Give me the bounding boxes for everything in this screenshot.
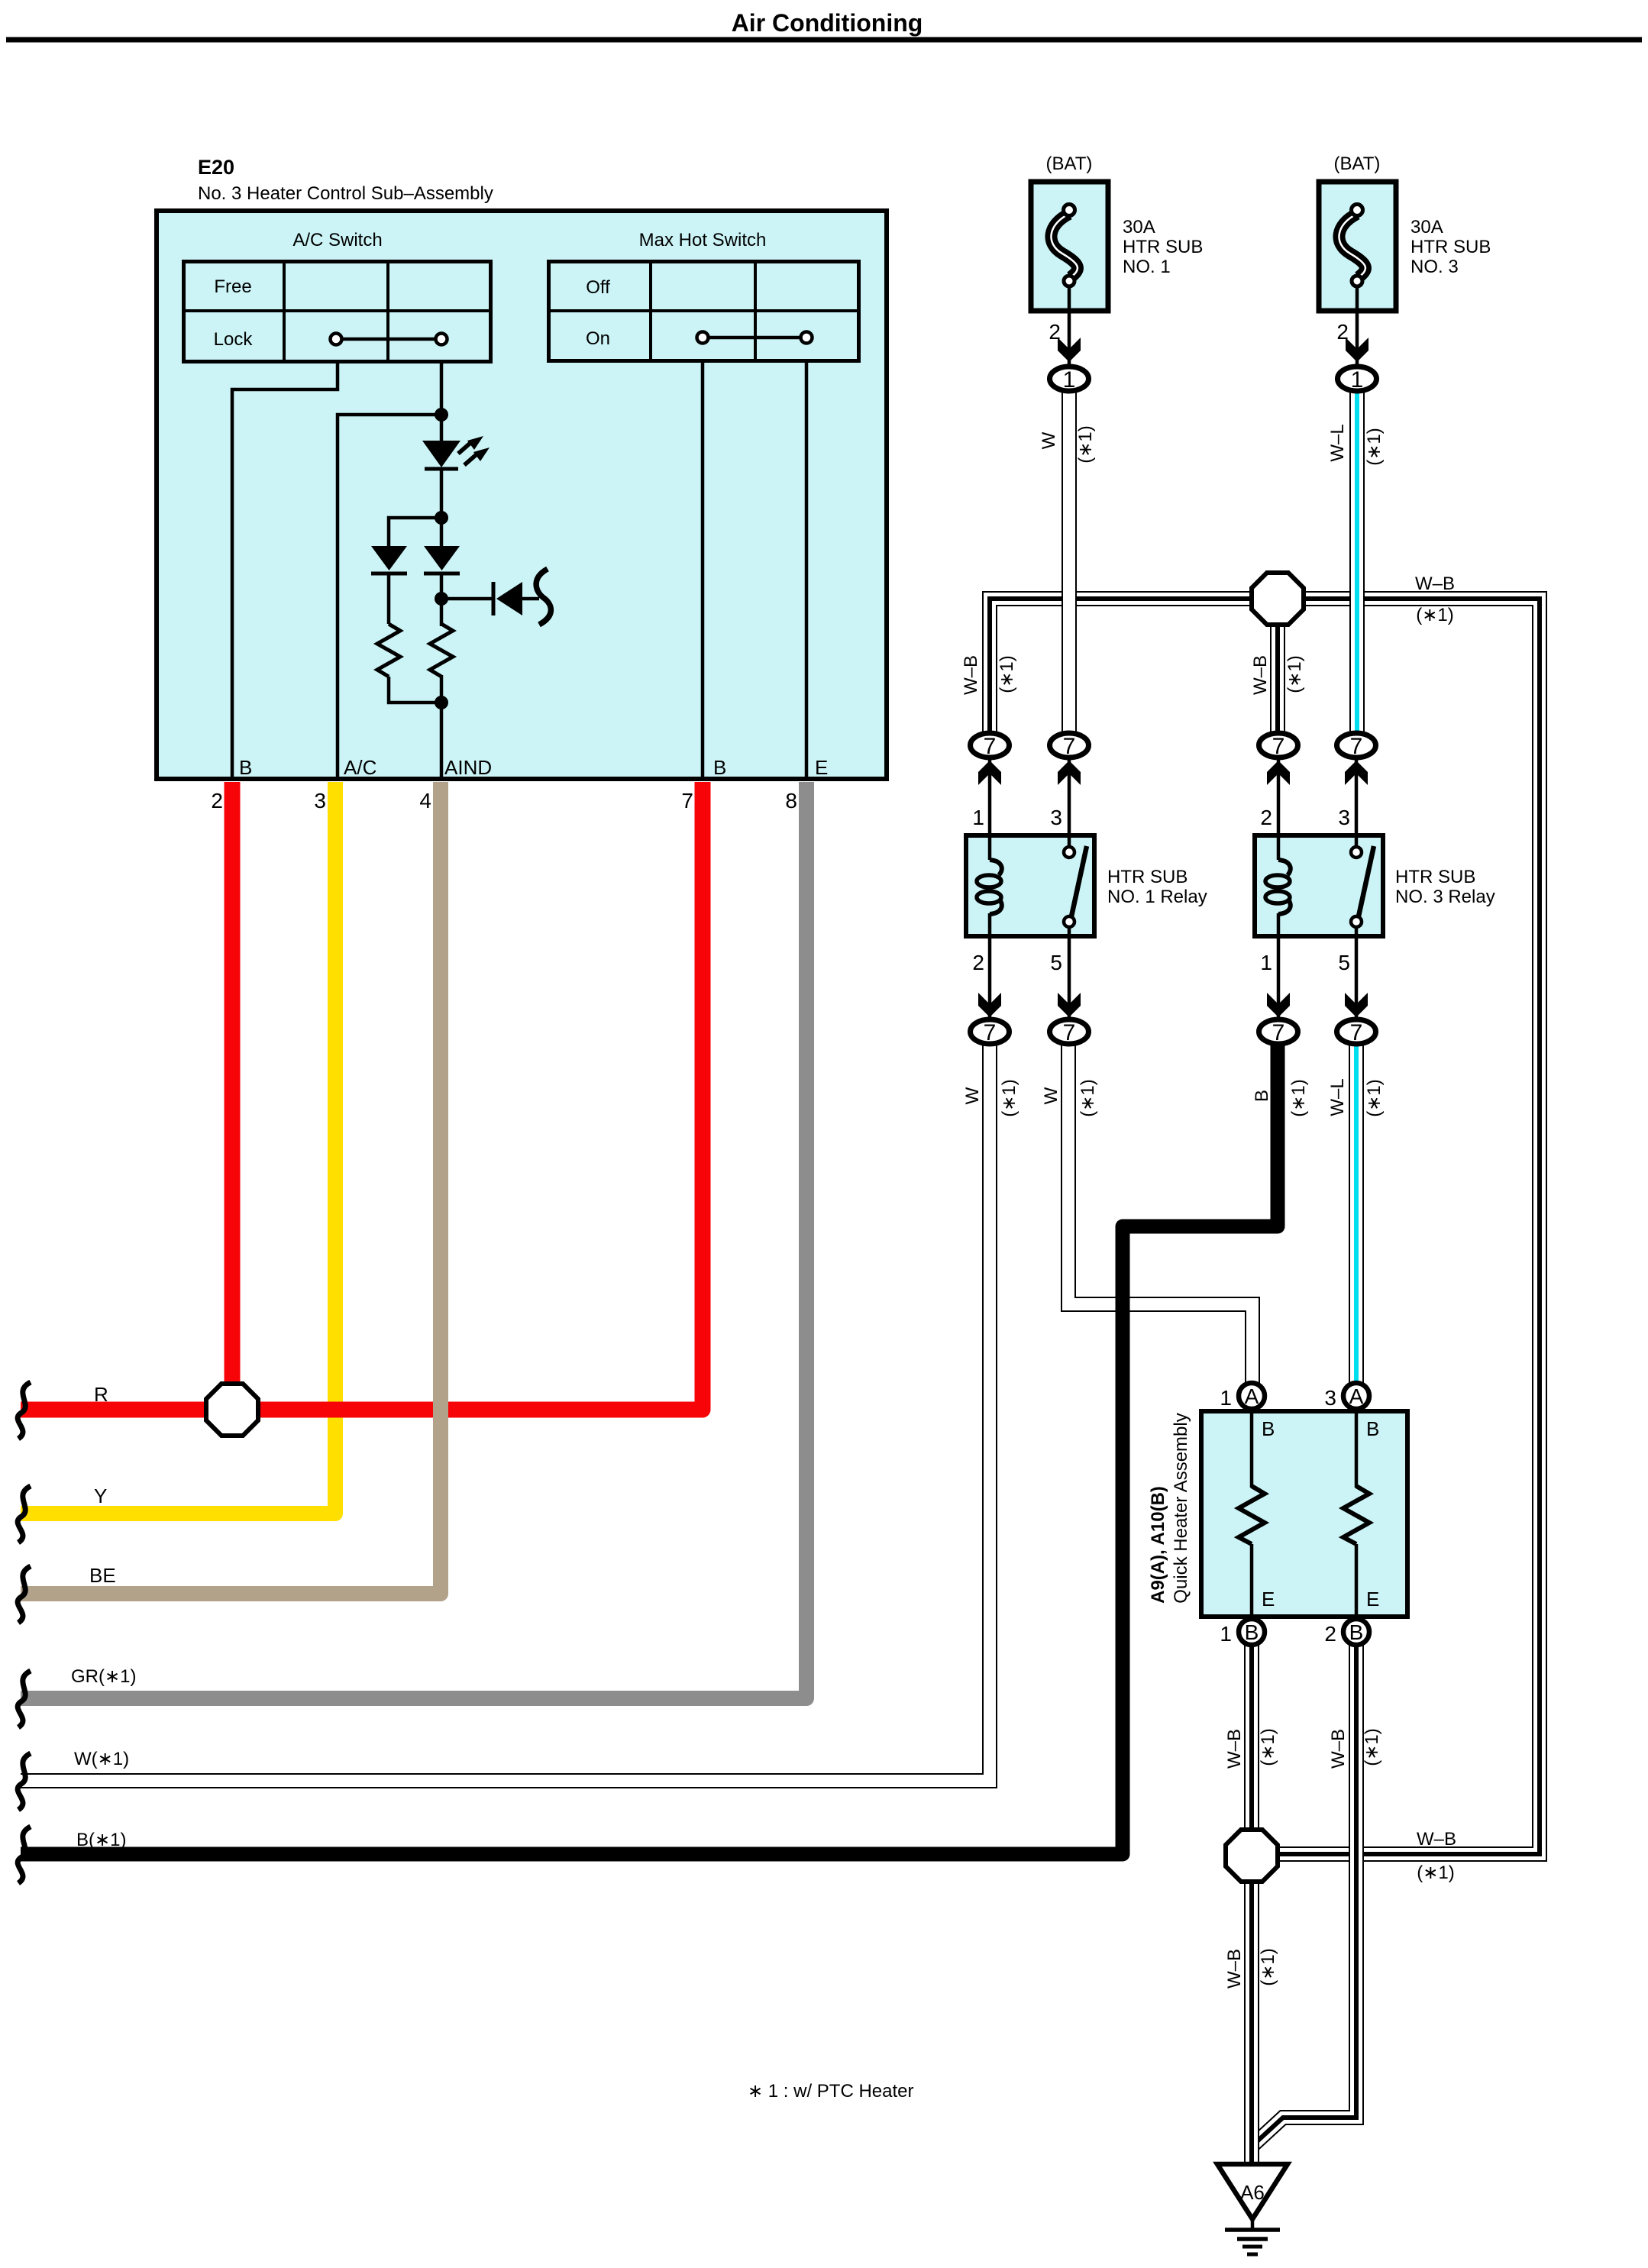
diode D2 <box>371 546 407 624</box>
pin 1 heater B1 <box>1220 1622 1232 1646</box>
svg-text:AIND: AIND <box>444 756 492 779</box>
arrow fuse2 down <box>1346 338 1368 362</box>
fuse HTR SUB NO.1 30A <box>1031 182 1108 368</box>
wire label (*1) bus bottom <box>1417 1863 1454 1883</box>
wire branch to diode D2 <box>389 518 441 546</box>
stub squiggle B <box>18 1827 31 1883</box>
wire A/C switch to pin B <box>232 363 338 777</box>
wire label (*1) fuse2 <box>1364 428 1385 465</box>
wire label W fuse1 <box>1039 431 1059 449</box>
relay HTR SUB NO.1 <box>966 835 1094 936</box>
svg-text:3: 3 <box>1338 806 1350 829</box>
svg-text:7: 7 <box>984 1020 997 1045</box>
wire branch to pin A/C <box>338 415 441 777</box>
svg-text:(∗1): (∗1) <box>1075 425 1096 463</box>
connector circle A3 <box>1343 1383 1369 1409</box>
stub squiggle W <box>18 1753 31 1810</box>
connector oval 7 h <box>1337 1019 1376 1045</box>
pin 2 heater B2 <box>1324 1622 1336 1646</box>
wire label (*1) relay2 pin5 <box>1364 1079 1385 1116</box>
arrow relay2 pin1 down <box>1267 993 1290 1017</box>
svg-text:3: 3 <box>1324 1386 1336 1410</box>
svg-text:1: 1 <box>972 806 984 829</box>
svg-text:A: A <box>1349 1384 1364 1408</box>
label A9(A), A10(B) <box>1148 1486 1168 1604</box>
svg-text:7: 7 <box>1272 734 1285 759</box>
svg-text:(∗1): (∗1) <box>1364 428 1385 465</box>
heater resistor right <box>1343 1411 1369 1617</box>
wire W fuse1 output <box>1068 391 1070 738</box>
node junction dot 3 <box>435 592 448 606</box>
wire B black thick <box>21 1043 1278 1854</box>
connector oval 7 f <box>1050 1019 1089 1045</box>
stub squiggle GR <box>18 1671 31 1727</box>
svg-text:HTR SUB: HTR SUB <box>1123 237 1203 257</box>
component E20 No.3 Heater Control Sub-Assembly box <box>157 211 887 779</box>
node junction dot 2 <box>435 511 448 525</box>
svg-text:NO. 3: NO. 3 <box>1410 257 1459 277</box>
switch table Max Hot Switch <box>547 230 861 363</box>
node junction dot 4 <box>435 696 448 709</box>
svg-text:No. 3 Heater Control Sub–Assem: No. 3 Heater Control Sub–Assembly <box>198 183 493 204</box>
svg-text:Lock: Lock <box>214 329 254 350</box>
svg-text:On: On <box>586 328 610 349</box>
wire label (*1) relay1 pin5 <box>1078 1079 1098 1116</box>
wire label W-B bus bottom <box>1417 1829 1456 1850</box>
svg-text:B: B <box>1252 1090 1272 1102</box>
connector oval 7 e <box>971 1019 1010 1045</box>
wire W-B bus loop <box>990 599 1540 1854</box>
wire label (*1) heater B1 <box>1258 1728 1278 1766</box>
svg-text:HTR SUB: HTR SUB <box>1395 867 1475 887</box>
wire label (*1) bus top <box>1416 605 1453 625</box>
title rule <box>6 37 1642 43</box>
arrow relay2 pin5 down <box>1345 993 1368 1017</box>
wire W-B octagon branch <box>1277 599 1278 738</box>
svg-text:W–L: W–L <box>1327 1078 1348 1116</box>
relay2 switch <box>1351 835 1374 936</box>
svg-text:2: 2 <box>972 951 984 974</box>
svg-text:(BAT): (BAT) <box>1334 153 1381 174</box>
label 30A HTR SUB NO. 3 <box>1410 217 1491 277</box>
svg-text:1: 1 <box>1351 367 1364 393</box>
svg-text:A: A <box>1245 1384 1259 1408</box>
stub label W(*1) <box>74 1749 129 1769</box>
wire label W-L relay2 pin5 <box>1327 1078 1348 1116</box>
svg-text:B: B <box>1262 1417 1275 1440</box>
heater pin labels B B E E <box>1262 1417 1379 1611</box>
label HTR SUB NO. 1 Relay <box>1107 867 1207 907</box>
wire label W relay1 pin5 <box>1041 1087 1062 1104</box>
component Quick Heater Assembly box <box>1201 1411 1407 1617</box>
wire label (*1) ground <box>1258 1948 1278 1985</box>
pin 3 heater A3 <box>1324 1386 1336 1410</box>
node octagon junction W-B bottom <box>1226 1830 1278 1882</box>
wire R red <box>21 782 703 1410</box>
svg-text:E20: E20 <box>198 156 234 179</box>
stub squiggle Y <box>18 1486 31 1543</box>
pin numbers relay2 bottom <box>1260 951 1350 974</box>
svg-text:B: B <box>1366 1417 1379 1440</box>
svg-text:(∗1): (∗1) <box>1416 605 1453 625</box>
wire stem relay2 pin2 <box>1277 758 1281 835</box>
svg-text:Y: Y <box>94 1485 107 1507</box>
wire label B relay2 pin1 <box>1252 1090 1272 1102</box>
svg-text:7: 7 <box>1350 1020 1363 1045</box>
svg-text:NO. 3 Relay: NO. 3 Relay <box>1395 887 1495 907</box>
pin 1 heater A1 <box>1220 1386 1232 1410</box>
svg-text:(∗1): (∗1) <box>1288 1079 1309 1116</box>
relay2 coil <box>1265 835 1291 936</box>
wire W-L relay2 pin5 to heater A3 <box>1356 1043 1357 1384</box>
svg-text:∗ 1 : w/ PTC Heater: ∗ 1 : w/ PTC Heater <box>748 2081 914 2102</box>
svg-text:(∗1): (∗1) <box>1364 1079 1385 1116</box>
svg-text:E: E <box>815 756 828 779</box>
svg-text:Off: Off <box>586 277 610 298</box>
svg-text:8: 8 <box>785 789 797 813</box>
note *1 w/ PTC Heater <box>748 2081 914 2102</box>
wire label W-B heater B1 <box>1224 1729 1245 1769</box>
wire label (*1) relay2 pin1 <box>1288 1079 1309 1116</box>
wire W-B heater B2 to ground <box>1254 1642 1356 2144</box>
connector circle B1 <box>1239 1619 1265 1645</box>
svg-text:W: W <box>962 1087 983 1104</box>
wire GR gray <box>21 782 806 1698</box>
ground A6 <box>1217 2164 1288 2254</box>
svg-text:W–B: W–B <box>1417 1829 1456 1850</box>
svg-text:2: 2 <box>1324 1622 1336 1646</box>
stub label Y <box>94 1485 107 1507</box>
label Quick Heater Assembly <box>1171 1413 1191 1603</box>
svg-text:A6: A6 <box>1240 2181 1265 2204</box>
svg-text:A/C: A/C <box>344 756 376 779</box>
stub label BE <box>89 1564 116 1587</box>
wire stem relay2 pin1 <box>1277 936 1281 1019</box>
svg-text:Max Hot Switch: Max Hot Switch <box>639 230 767 250</box>
wire W to relay1 pin5 and heater A1 <box>1068 1043 1252 1384</box>
svg-text:E: E <box>1366 1588 1379 1611</box>
svg-text:4: 4 <box>419 789 431 813</box>
pin 2 fuse1 <box>1049 320 1061 344</box>
wire label W-B heater B2 <box>1328 1729 1349 1769</box>
connector oval 1 fuse1 <box>1050 367 1089 393</box>
resistor R2 <box>430 624 453 677</box>
connector circle A1 <box>1239 1383 1265 1409</box>
arrow relay1 pin3 up <box>1058 761 1081 785</box>
svg-text:W–B: W–B <box>1328 1729 1349 1769</box>
svg-text:1: 1 <box>1220 1386 1232 1410</box>
svg-text:E: E <box>1262 1588 1275 1611</box>
svg-text:(∗1): (∗1) <box>1284 655 1305 693</box>
svg-text:HTR SUB: HTR SUB <box>1107 867 1188 887</box>
wire max hot to pin 7 <box>701 363 705 777</box>
arrow relay2 pin2 up <box>1267 761 1290 785</box>
svg-text:W: W <box>1039 431 1059 449</box>
wire stem relay1 pin1 <box>988 758 992 835</box>
diode D4 with thermal squiggle <box>441 569 551 625</box>
node octagon junction R <box>206 1384 258 1436</box>
svg-text:Quick Heater Assembly: Quick Heater Assembly <box>1171 1413 1191 1603</box>
wire label W-B ground <box>1224 1949 1245 1989</box>
svg-text:(∗1): (∗1) <box>1078 1079 1098 1116</box>
svg-text:7: 7 <box>984 734 997 759</box>
wire label W-B left vertical <box>961 655 981 695</box>
svg-text:W–B: W–B <box>1224 1949 1245 1989</box>
svg-text:2: 2 <box>1260 806 1272 829</box>
wire label (*1) octagon branch <box>1284 655 1305 693</box>
pin labels E20 <box>239 756 828 779</box>
wire label (*1) relay1 pin2 <box>999 1079 1019 1116</box>
svg-text:1: 1 <box>1220 1622 1232 1646</box>
connector oval 7 b <box>1050 733 1089 759</box>
connector oval 1 fuse2 <box>1338 367 1377 393</box>
wire label W-B bus top <box>1415 573 1455 594</box>
wire label W-B octagon branch <box>1250 655 1271 695</box>
svg-text:7: 7 <box>1272 1020 1285 1045</box>
wire stem relay2 pin3 <box>1355 758 1359 835</box>
svg-text:W–L: W–L <box>1327 424 1348 461</box>
svg-text:2: 2 <box>211 789 223 813</box>
relay1 coil <box>977 835 1002 936</box>
svg-text:W: W <box>1041 1087 1062 1104</box>
arrow fuse1 down <box>1058 338 1081 362</box>
svg-text:A/C Switch: A/C Switch <box>292 230 382 250</box>
fuse HTR SUB NO.3 30A <box>1319 182 1396 368</box>
svg-text:1: 1 <box>1063 367 1076 393</box>
arrow relay1 pin5 down <box>1058 993 1081 1017</box>
connector circle B2 <box>1343 1619 1369 1645</box>
diode D3 <box>424 546 460 573</box>
svg-text:5: 5 <box>1338 951 1350 974</box>
svg-text:(∗1): (∗1) <box>1417 1863 1454 1883</box>
heater resistor left <box>1239 1411 1265 1617</box>
svg-text:3: 3 <box>314 789 326 813</box>
svg-text:5: 5 <box>1050 951 1062 974</box>
node octagon junction W-B top <box>1252 573 1304 625</box>
wire max hot to pin 8 <box>805 363 809 777</box>
label (BAT) fuse1 <box>1046 153 1093 174</box>
pin numbers E20 <box>211 789 797 813</box>
switch table A/C Switch <box>182 230 493 363</box>
stub label GR(*1) <box>71 1666 136 1687</box>
svg-text:B(∗1): B(∗1) <box>76 1830 126 1850</box>
wire stem relay1 pin2 <box>988 936 992 1019</box>
relay1 switch <box>1064 835 1087 936</box>
svg-text:(BAT): (BAT) <box>1046 153 1093 174</box>
svg-text:W–B: W–B <box>1250 655 1271 695</box>
svg-text:(∗1): (∗1) <box>997 655 1017 693</box>
svg-text:30A: 30A <box>1410 217 1443 237</box>
node junction dot 1 <box>435 408 448 422</box>
svg-text:B: B <box>1349 1620 1364 1644</box>
svg-text:W(∗1): W(∗1) <box>74 1749 129 1769</box>
label 30A HTR SUB NO. 1 <box>1123 217 1203 277</box>
svg-text:B: B <box>1245 1620 1259 1644</box>
wire label (*1) heater B2 <box>1362 1728 1382 1766</box>
svg-text:W–B: W–B <box>961 655 981 695</box>
wire label (*1) left vertical <box>997 655 1017 693</box>
svg-text:(∗1): (∗1) <box>1362 1728 1382 1766</box>
wire label W relay1 pin2 <box>962 1087 983 1104</box>
title Air Conditioning <box>732 9 923 37</box>
wire W-L fuse2 output <box>1356 391 1358 738</box>
svg-text:NO. 1: NO. 1 <box>1123 257 1171 277</box>
wire stem relay2 pin5 <box>1355 936 1359 1019</box>
wire AIND chain vertical <box>440 363 444 777</box>
svg-text:3: 3 <box>1050 806 1062 829</box>
connector oval 7 c <box>1259 733 1298 759</box>
connector oval 7 d <box>1337 733 1376 759</box>
stub label R <box>94 1383 108 1406</box>
svg-text:Free: Free <box>214 276 251 297</box>
svg-text:W–B: W–B <box>1415 573 1455 594</box>
pin numbers relay2 top <box>1260 806 1350 829</box>
pin 2 fuse2 <box>1336 320 1349 344</box>
svg-text:30A: 30A <box>1123 217 1155 237</box>
wire label (*1) fuse1 <box>1075 425 1096 463</box>
svg-text:(∗1): (∗1) <box>1258 1948 1278 1985</box>
arrow relay1 pin1 up <box>978 761 1001 785</box>
LED D1 <box>422 436 490 469</box>
stub squiggle BE <box>18 1566 31 1623</box>
svg-text:Air Conditioning: Air Conditioning <box>732 9 923 37</box>
svg-text:R: R <box>94 1383 108 1406</box>
svg-text:7: 7 <box>1063 1020 1076 1045</box>
connector oval 7 g <box>1259 1019 1298 1045</box>
svg-text:B: B <box>239 756 252 779</box>
relay HTR SUB NO.3 <box>1255 835 1383 936</box>
svg-text:HTR SUB: HTR SUB <box>1410 237 1491 257</box>
stub squiggle R <box>18 1382 31 1439</box>
svg-text:NO. 1 Relay: NO. 1 Relay <box>1107 887 1207 907</box>
wire stem relay1 pin5 <box>1068 936 1071 1019</box>
svg-text:(∗1): (∗1) <box>1258 1728 1278 1766</box>
label (BAT) fuse2 <box>1334 153 1381 174</box>
pin numbers relay1 top <box>972 806 1062 829</box>
wire W-B heater B1 to ground A6 <box>1251 1642 1252 2164</box>
connector label E20 <box>198 156 493 204</box>
pin numbers relay1 bottom <box>972 951 1062 974</box>
svg-text:W–B: W–B <box>1224 1729 1245 1769</box>
wire stem relay1 pin3 <box>1068 758 1071 835</box>
svg-text:7: 7 <box>1063 734 1076 759</box>
label HTR SUB NO. 3 Relay <box>1395 867 1495 907</box>
wire Y yellow <box>21 782 335 1514</box>
svg-text:B: B <box>713 756 726 779</box>
wire W relay1 pin2 to stub <box>21 1043 990 1781</box>
wire label W-L fuse2 <box>1327 424 1348 461</box>
connector oval 7 a <box>971 733 1010 759</box>
resistor R1 <box>377 624 441 703</box>
wire BE beige <box>21 782 441 1594</box>
svg-text:7: 7 <box>1350 734 1363 759</box>
stub label B(*1) <box>76 1830 126 1850</box>
svg-text:A9(A), A10(B): A9(A), A10(B) <box>1148 1486 1168 1604</box>
svg-text:(∗1): (∗1) <box>999 1079 1019 1116</box>
svg-text:7: 7 <box>681 789 693 813</box>
svg-text:BE: BE <box>89 1564 116 1587</box>
svg-text:GR(∗1): GR(∗1) <box>71 1666 136 1687</box>
svg-text:1: 1 <box>1260 951 1272 974</box>
arrow relay1 pin2 down <box>978 993 1001 1017</box>
arrow relay2 pin3 up <box>1345 761 1368 785</box>
